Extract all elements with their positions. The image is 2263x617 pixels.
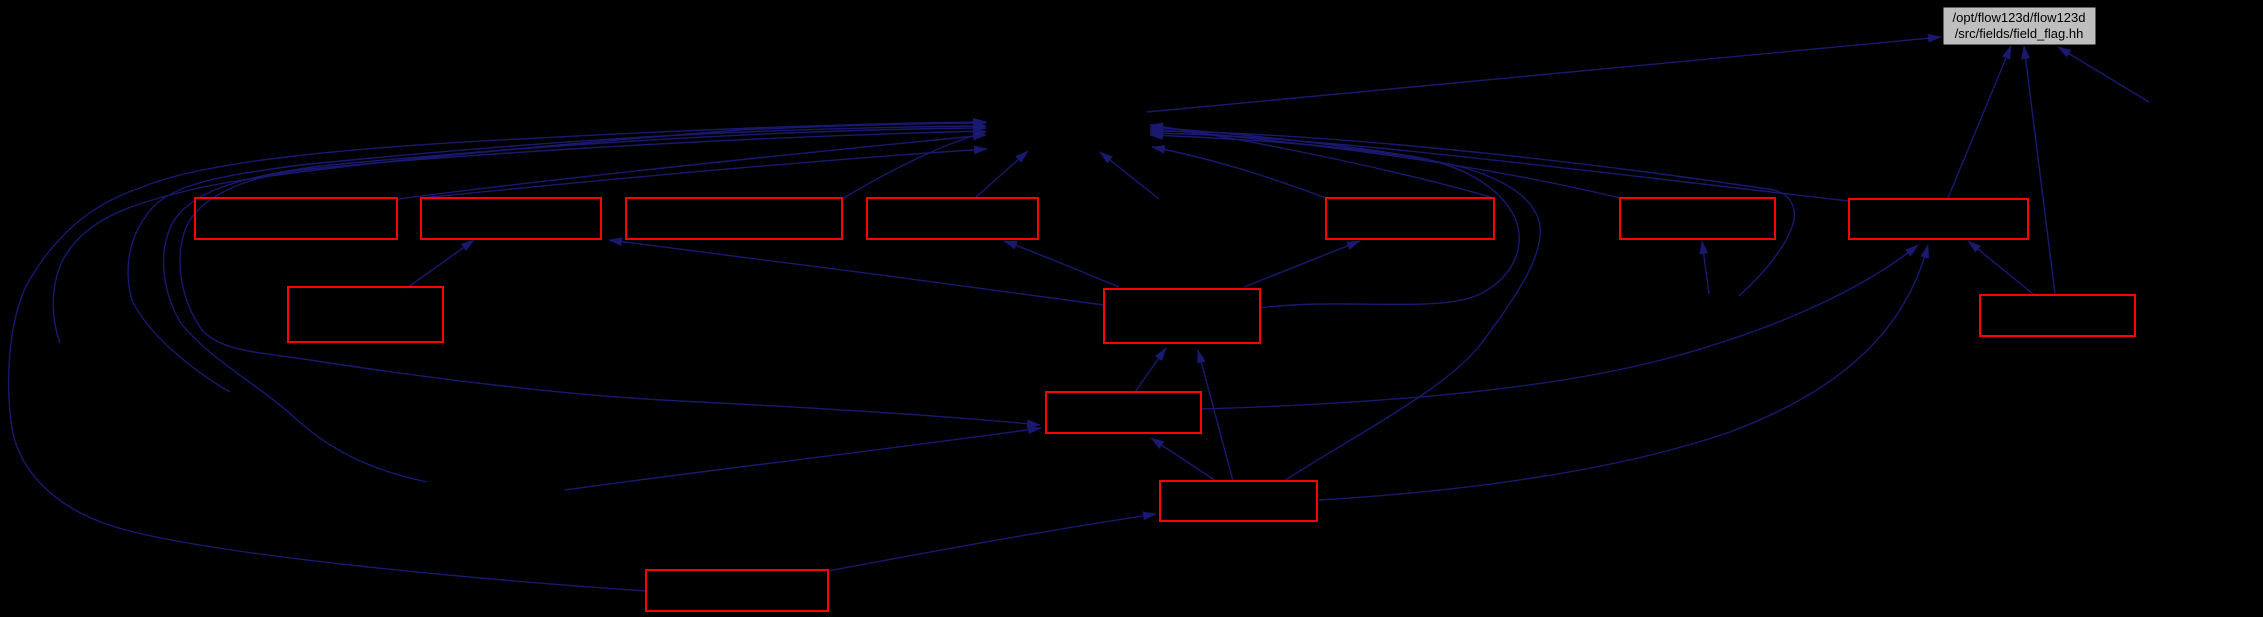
svg-text:/opt/flow123d/flow123d: /opt/flow123d/flow123d	[1953, 10, 2086, 25]
svg-text:/src/fields/field_flag.hh: /src/fields/field_flag.hh	[1955, 26, 2084, 41]
